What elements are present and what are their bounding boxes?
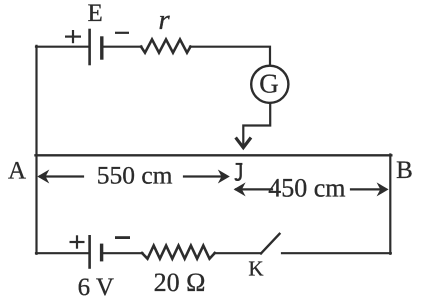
resistor R1 20 ohm <box>142 246 215 259</box>
wire left vertical A-side <box>35 46 37 254</box>
svg-text:G: G <box>259 69 279 99</box>
wire right vertical B-side <box>389 155 391 254</box>
svg-text:450 cm: 450 cm <box>268 173 345 202</box>
switch K blade <box>261 234 280 254</box>
dimension arrowhead 450cm left <box>234 182 246 196</box>
wire galvanometer to jockey arrow <box>243 103 270 146</box>
wire resistor r to galvanometer <box>190 47 270 66</box>
battery E long plate (+) <box>88 30 91 64</box>
svg-text:K: K <box>248 257 263 281</box>
label J (custom serif glyph) <box>235 163 242 180</box>
dimension line 450cm left segment <box>236 188 272 190</box>
svg-text:20 Ω: 20 Ω <box>154 268 206 297</box>
wire battery 6V to resistor 20 ohm <box>103 252 143 254</box>
svg-text:r: r <box>158 4 170 36</box>
label + of E <box>65 35 81 37</box>
battery 6V long plate (+) <box>88 236 91 267</box>
svg-text:550 cm: 550 cm <box>97 160 173 189</box>
dimension arrowhead 550cm left <box>37 170 49 184</box>
svg-text:B: B <box>396 157 413 184</box>
dimension line 450cm right segment <box>351 188 382 190</box>
wire switch K to B-side <box>282 252 391 254</box>
svg-text:E: E <box>88 0 103 27</box>
label - of 6V <box>115 236 130 239</box>
dimension line 550cm left segment <box>40 175 83 177</box>
dimension arrowhead 550cm right <box>218 170 230 184</box>
label + of 6V <box>70 241 85 243</box>
resistor r <box>141 39 191 52</box>
wire resistor 20 ohm to switch K <box>215 252 262 254</box>
svg-text:6 V: 6 V <box>78 274 114 301</box>
wire top left to battery E <box>36 46 88 48</box>
wire battery E to resistor r <box>103 46 142 48</box>
wire A to B (potentiometer) <box>36 154 392 156</box>
galvanometer U1 circle <box>251 66 288 103</box>
battery 6V short plate (-) <box>100 245 103 259</box>
svg-text:A: A <box>8 157 26 184</box>
wire bottom left to battery 6V <box>36 252 88 254</box>
battery E short plate (-) <box>100 38 103 58</box>
dimension line 550cm right segment <box>184 175 223 177</box>
dimension arrowhead 450cm right <box>377 182 389 196</box>
label - of E <box>115 32 129 34</box>
jockey arrowhead at J <box>237 139 250 148</box>
